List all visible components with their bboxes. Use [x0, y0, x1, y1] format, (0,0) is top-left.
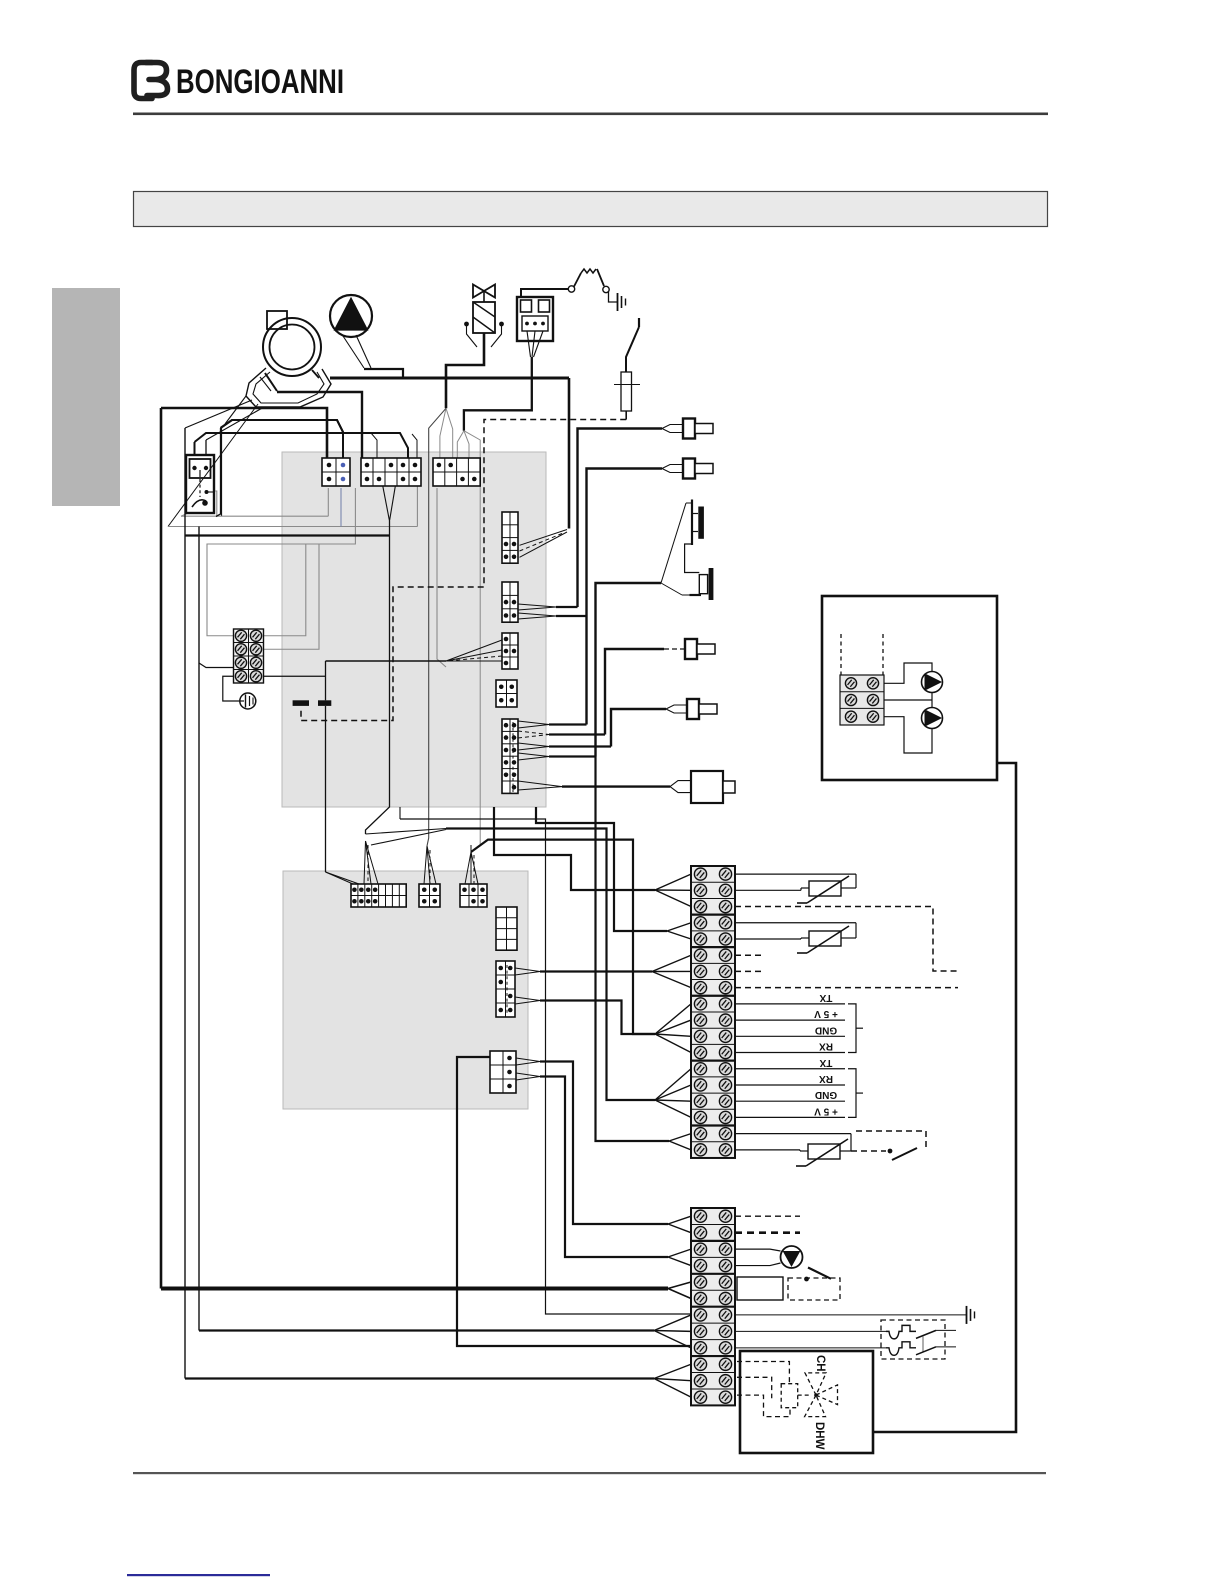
logo mark (stylised B)	[134, 63, 168, 99]
serial line GND row15	[735, 1100, 845, 1102]
S2 wedge rows10-12	[654, 1364, 691, 1397]
svg-text:GND: GND	[815, 1024, 837, 1035]
mains bus H535	[185, 534, 390, 536]
dashed row6 stub	[735, 954, 762, 956]
block E dashed strip	[512, 722, 514, 792]
board2 block T5	[419, 884, 440, 907]
thermostat contact 2	[735, 1342, 956, 1356]
ignition transformer T1 box	[517, 297, 553, 341]
S2 wedge rows1-2	[668, 1216, 691, 1232]
T5 riser	[427, 408, 446, 846]
S2 w3-4 feed	[516, 1073, 668, 1257]
fuse bar 1	[293, 700, 309, 706]
board2 block E2 (conn)	[496, 961, 515, 1017]
pump wires	[343, 335, 403, 378]
S1 wedge rows13-16	[655, 1069, 691, 1118]
serial line TX row9	[735, 1003, 845, 1005]
left rail L2	[184, 428, 186, 1379]
pump P1 (circle with triangle)	[330, 295, 372, 337]
mains feed	[161, 1287, 668, 1291]
wire H433 drop	[194, 442, 196, 455]
plug X1	[662, 419, 713, 439]
NTC probe B1	[797, 876, 849, 903]
title bar	[134, 192, 1048, 227]
wedge rows10-12 feed	[185, 1377, 654, 1379]
room stat box	[737, 1277, 783, 1300]
block E2 dashed	[506, 965, 508, 1015]
T4 riser	[366, 536, 390, 835]
main supply bus	[330, 377, 569, 380]
TB8 row4 to bar2	[264, 675, 326, 677]
remote dashed leads	[841, 634, 883, 675]
bus drop to board	[568, 378, 571, 529]
wire H420 T1pin2	[221, 420, 344, 458]
wedge rows7-9 feed	[199, 1329, 654, 1331]
wire H433 switch->T2	[195, 433, 409, 480]
pump P3 (DHW pump)	[735, 1246, 803, 1268]
serial bracket 1	[848, 1004, 856, 1053]
fan M1 (blower, double circle)	[263, 318, 321, 376]
igniter electrode S2	[685, 544, 714, 600]
service switch inner	[190, 459, 215, 507]
motor valve (3-way, dashed)	[805, 1373, 838, 1417]
gas valve Y1 (bowtie)	[473, 285, 495, 303]
T3 bottom riser 2	[464, 431, 480, 852]
feed w9-12b	[471, 840, 655, 1034]
display PCB board (lower grey box)	[283, 871, 528, 1109]
dashed row3 link	[735, 907, 958, 971]
svg-text:+ 5 V: + 5 V	[814, 1008, 838, 1019]
remote pump A	[884, 663, 943, 693]
dashed row8 link	[735, 987, 958, 989]
thermostat contact 1	[735, 1325, 956, 1351]
w6-8 feed	[515, 968, 652, 975]
serial bracket 2	[848, 1069, 856, 1118]
svg-text:DHW: DHW	[813, 1422, 825, 1450]
block A pin wires	[520, 530, 568, 558]
S1 wedge rows9-12	[655, 1004, 691, 1053]
left rail L3	[198, 527, 200, 1331]
L3 link TB8 row3	[199, 663, 234, 668]
valve dashes row11	[737, 1377, 772, 1398]
NTC probe B2 loop	[735, 923, 856, 939]
svg-text:+ 5 V: + 5 V	[814, 1105, 838, 1116]
gas valve terminals	[464, 322, 504, 347]
terminal strip S1	[691, 866, 735, 1158]
pump switch	[788, 1268, 840, 1301]
T1 blue pin riser	[340, 488, 342, 527]
board2 block F (conn)	[490, 1051, 516, 1093]
left rail L1 (to bottom strip)	[160, 408, 163, 1289]
wire bus->T1 left rail	[161, 408, 327, 460]
block E pin1 wedge	[518, 721, 587, 728]
remote box output wire	[873, 763, 1016, 1432]
board1 block T1	[322, 458, 350, 486]
wire to plug X2	[587, 469, 663, 725]
serial line GND row11	[735, 1035, 845, 1037]
svg-text:CH: CH	[814, 1355, 826, 1372]
NTC probe B1 loop	[735, 874, 856, 890]
T3 bottom riser 1	[437, 488, 446, 667]
w9-12 feed	[515, 997, 655, 1034]
S2 row1 dashed	[735, 1215, 800, 1217]
S2 wedge rows3-4	[668, 1249, 691, 1265]
T6 fan	[465, 852, 478, 884]
grey net T2pin-TB8	[207, 488, 355, 649]
plug X4	[666, 699, 717, 719]
board1 block E (conn 6p)	[502, 719, 518, 793]
svg-text:GND: GND	[815, 1089, 837, 1100]
wire H420 switch->T1	[221, 420, 344, 458]
main PCB board (upper grey box)	[282, 452, 546, 807]
feed w13-16	[366, 829, 656, 1101]
block E pin4 wedge	[518, 753, 596, 760]
T6 riser	[470, 845, 472, 852]
terminal block TB8	[234, 629, 264, 683]
gas valve wire	[440, 333, 484, 466]
remote terminal block	[840, 675, 884, 725]
S2 wedge rows5-6 (mains)	[668, 1282, 691, 1298]
S2 w1-2 feed	[516, 1058, 668, 1224]
block E pin3 wedge	[518, 743, 611, 750]
serial line TX row13	[735, 1068, 845, 1070]
serial line + 5 V row10	[735, 1019, 845, 1021]
remote box outline	[822, 596, 997, 780]
ignition electrode	[614, 318, 640, 420]
ground G1 (circle earth)	[240, 693, 256, 709]
valve dashes row10	[737, 1362, 789, 1384]
board1 block C (conn 3p)	[502, 633, 518, 669]
hook net (switch-T1 bottom)	[181, 488, 328, 516]
earth G2	[967, 1306, 975, 1324]
S1 wedge rows1-3	[655, 874, 691, 906]
valve dashes row12	[737, 1395, 790, 1417]
valve box	[740, 1351, 873, 1453]
gas valve coil	[473, 302, 495, 333]
block B pin wedge 2	[518, 613, 587, 619]
wire block C run	[326, 661, 447, 872]
NTC probe B3	[796, 1139, 848, 1166]
T4 fan	[326, 841, 379, 884]
valve dashed rect	[781, 1384, 798, 1408]
left page tab (grey)	[52, 288, 120, 506]
plug X3	[664, 639, 715, 659]
S1 wedge rows4-5	[667, 923, 691, 939]
T2 top pin wires	[371, 433, 417, 458]
serial line + 5 V row16	[735, 1116, 845, 1118]
igniter electrode S1	[692, 500, 704, 546]
svg-text:BONGIOANNI: BONGIOANNI	[176, 63, 344, 101]
board2 block T7	[496, 907, 517, 950]
service switch SB1 box	[186, 455, 214, 513]
feed w17-18	[596, 757, 670, 1142]
wire to plug X4	[611, 709, 666, 747]
header rule	[133, 113, 1048, 116]
board1 block T2	[361, 458, 421, 486]
board2 block T6	[460, 884, 487, 907]
S2 wedge rows7-9	[654, 1315, 691, 1348]
terminal strip S2	[691, 1208, 735, 1405]
thin rail to S2 row7	[400, 807, 691, 1314]
fuse bar 2	[318, 700, 331, 706]
svg-text:RX: RX	[819, 1041, 833, 1052]
footer rule	[133, 1472, 1046, 1474]
footer blue underline	[127, 1574, 270, 1576]
NTC probe B3 loop	[735, 1134, 851, 1151]
S1 wedge rows6-8	[652, 955, 691, 987]
fan wires	[168, 373, 277, 527]
S2 row7 earth line	[735, 1314, 966, 1316]
switch box top wires	[205, 440, 207, 455]
TB8 row4 to ground	[223, 676, 240, 701]
S2 row2 dashed bold	[735, 1231, 800, 1234]
fan tab	[267, 311, 287, 329]
T2 bottom V	[382, 482, 396, 536]
svg-text:TX: TX	[819, 1057, 832, 1068]
wire to plug X5	[518, 781, 670, 790]
block C fan	[446, 640, 502, 661]
S1 wedge rows17-18	[669, 1134, 691, 1150]
svg-text:TX: TX	[819, 992, 832, 1003]
wire to plug X1	[578, 429, 663, 608]
svg-text:RX: RX	[819, 1073, 833, 1084]
T5 fan	[424, 846, 436, 884]
block B pin wedge 1	[518, 604, 578, 610]
board1 block A (conn 4p)	[502, 512, 518, 563]
block F left rail	[457, 1057, 691, 1346]
grey bus H526	[168, 526, 417, 528]
board1 block D (conn 2p)	[496, 680, 517, 707]
wire to igniters	[596, 503, 693, 757]
block E pin2 dashed wedge	[518, 731, 605, 738]
dashed row7 stub	[735, 970, 762, 972]
board1 block B (conn 3p)	[502, 582, 518, 622]
valve link dash	[798, 1394, 811, 1396]
fuse link F1 with contacts	[568, 269, 609, 293]
ignition transformer wires	[457, 289, 568, 466]
T2 pin5 riser	[416, 467, 418, 527]
NTC probe B2	[797, 926, 849, 953]
plug X2	[662, 459, 713, 479]
board1 block T3	[433, 458, 480, 486]
earth after fuse	[609, 292, 626, 312]
serial line RX row14	[735, 1084, 845, 1086]
fan shroud	[246, 368, 331, 407]
plug X5 (large)	[670, 771, 735, 803]
wire H392 fan->T2	[277, 392, 362, 466]
thermostat dashed box	[881, 1320, 945, 1359]
feed w1-3	[494, 807, 655, 890]
feed w4-5	[536, 807, 667, 931]
wire H420 drop	[216, 428, 221, 517]
wire to plug X3	[605, 649, 664, 735]
remote pump B	[884, 693, 943, 754]
wire H420 drop	[221, 428, 223, 516]
serial line RX row12	[735, 1052, 845, 1054]
outdoor sensor switch	[851, 1131, 926, 1160]
board2 block T4	[351, 884, 406, 907]
dashed remote path D1	[301, 420, 626, 721]
